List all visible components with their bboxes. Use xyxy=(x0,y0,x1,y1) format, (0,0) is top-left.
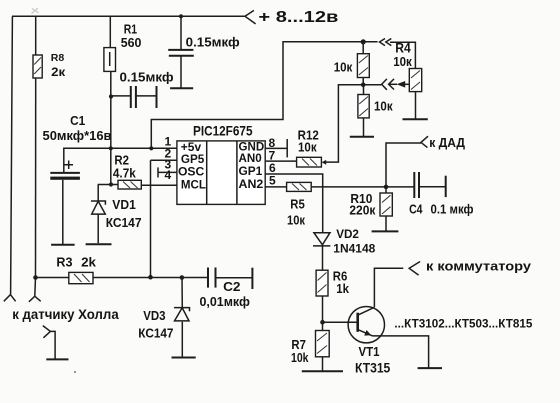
capacitor C4 xyxy=(413,172,415,198)
svg-text:220к: 220к xyxy=(349,204,376,218)
capacitor 0.15uF (right, vertical) xyxy=(180,16,182,50)
capacitor C1 electrolytic xyxy=(50,172,80,174)
resistor R2 xyxy=(118,180,141,189)
svg-text:R8: R8 xyxy=(51,53,65,64)
wire pin8 stub xyxy=(265,147,287,149)
wire R8 top lead xyxy=(35,16,37,55)
svg-text:MCL: MCL xyxy=(181,177,206,191)
node cap2 on R1 lead xyxy=(109,94,113,98)
resistor R6 xyxy=(316,270,328,296)
svg-text:0,01мкф: 0,01мкф xyxy=(200,295,250,309)
wiper arrow R4 xyxy=(389,83,397,85)
resistor 10k lower xyxy=(363,85,365,95)
svg-text:к ДАД: к ДАД xyxy=(429,135,465,150)
svg-text:AN0: AN0 xyxy=(239,151,263,165)
svg-text:4.7k: 4.7k xyxy=(113,167,136,181)
svg-text:КС147: КС147 xyxy=(138,326,173,340)
svg-text:5: 5 xyxy=(269,173,276,187)
IC U1 PIC12F675 box xyxy=(177,141,265,205)
wire top +supply rail xyxy=(12,15,245,17)
node R10 top xyxy=(384,185,389,190)
bar pin3 end xyxy=(157,167,159,177)
svg-text:КТ315: КТ315 xyxy=(355,360,391,375)
wire collector to commutator xyxy=(374,268,403,307)
svg-text:PIC12F675: PIC12F675 xyxy=(193,123,253,139)
node cap1 on rail xyxy=(179,14,183,18)
resistor R1 xyxy=(104,48,116,72)
svg-text:0.1 мкф: 0.1 мкф xyxy=(431,203,474,217)
svg-text:C1: C1 xyxy=(70,113,85,128)
terminal hall ground xyxy=(43,326,55,360)
svg-text:R2: R2 xyxy=(114,154,129,168)
wire R1 top lead xyxy=(109,16,111,47)
wire pin6 GP1 down xyxy=(265,174,323,233)
capacitor 0.15uF (left, horizontal) xyxy=(111,95,131,97)
wire R2 left xyxy=(98,184,118,186)
terminal to commutator xyxy=(409,262,420,276)
wire VD3 top lead xyxy=(181,278,183,309)
transistor VT1 xyxy=(348,307,384,343)
ground R7 xyxy=(302,370,343,372)
wire riser to divider top xyxy=(151,42,377,149)
node VD3 top xyxy=(180,275,185,280)
resistor R5 xyxy=(287,182,312,191)
resistor R10 xyxy=(380,193,392,216)
svg-text:10к: 10к xyxy=(334,59,353,74)
resistor R7 xyxy=(322,322,324,330)
svg-text:VT1: VT1 xyxy=(359,344,380,359)
resistor R8 xyxy=(33,55,42,78)
svg-text:C2: C2 xyxy=(223,280,240,294)
svg-text:VD1: VD1 xyxy=(112,198,136,212)
svg-text:VD3: VD3 xyxy=(143,309,165,323)
wire R8 line to hall terminal xyxy=(34,278,37,297)
resistor R3 xyxy=(69,272,93,283)
node R2 left xyxy=(109,182,113,186)
wire emitter xyxy=(373,336,429,368)
ground VD1 xyxy=(86,243,112,245)
svg-text:...КТ3102...КТ503...КТ815: ...КТ3102...КТ503...КТ815 xyxy=(394,316,532,330)
svg-text:КС147: КС147 xyxy=(106,216,142,230)
ground VD3 xyxy=(172,357,196,359)
connector chevrons top right xyxy=(380,39,392,46)
terminal to hall sensor (left) xyxy=(4,295,16,302)
svg-text:C4: C4 xyxy=(409,203,422,217)
ground R10 xyxy=(372,230,399,232)
svg-text:2k: 2k xyxy=(81,256,96,270)
speck xyxy=(74,371,76,373)
wire base xyxy=(323,321,358,323)
svg-text:AN2: AN2 xyxy=(239,177,264,191)
diode VD2 xyxy=(314,233,330,245)
svg-text:50мкф*16в: 50мкф*16в xyxy=(43,128,112,143)
ground C1 xyxy=(51,244,75,246)
svg-text:R5: R5 xyxy=(290,197,305,211)
wire pin2 stub xyxy=(151,159,177,161)
svg-text:4: 4 xyxy=(165,168,172,182)
svg-text:1N4148: 1N4148 xyxy=(333,241,375,255)
capacitor C2 xyxy=(207,268,209,288)
node divider mid xyxy=(361,83,366,88)
ground hall xyxy=(46,358,68,360)
bar pin8 end xyxy=(286,139,288,157)
wire pin7 stub xyxy=(265,160,296,162)
resistor R12 xyxy=(297,157,322,167)
svg-text:0.15мкф: 0.15мкф xyxy=(120,69,174,84)
svg-text:1k: 1k xyxy=(336,282,349,296)
wire R1 bottom lead xyxy=(110,71,112,148)
svg-text:GP1: GP1 xyxy=(239,164,263,178)
potentiometer R4 body xyxy=(409,69,421,92)
svg-text:2к: 2к xyxy=(51,65,66,79)
svg-text:10k: 10k xyxy=(291,351,309,365)
wire pin5 stub xyxy=(265,186,286,188)
svg-text:560: 560 xyxy=(121,36,142,50)
svg-text:R1: R1 xyxy=(124,23,137,37)
wire +5v node horizontal (C1 to pin1) xyxy=(64,148,177,173)
wiper chevrons R4 xyxy=(363,84,381,86)
zener VD3 xyxy=(174,308,190,312)
svg-text:+ 8...12в: + 8...12в xyxy=(258,9,338,26)
node divider top xyxy=(361,39,366,44)
arrow R12 right xyxy=(322,160,327,165)
wire GP5 vertical xyxy=(150,160,152,277)
wire left vertical xyxy=(11,16,13,295)
ground R4 xyxy=(403,118,428,120)
node GP5 bottom xyxy=(148,275,153,280)
terminal mark top-left (faint) xyxy=(32,8,39,14)
wire bottom horizontal xyxy=(36,277,208,279)
node riser xyxy=(149,146,153,150)
wire DAD riser xyxy=(386,143,421,187)
svg-text:к коммутатору: к коммутатору xyxy=(426,259,532,274)
svg-text:10к: 10к xyxy=(287,213,306,227)
wire R5 right to node xyxy=(311,186,414,188)
node base xyxy=(320,320,325,325)
ground emitter xyxy=(418,367,442,369)
terminal +8...12v xyxy=(245,10,256,24)
wire R12 to divider mid xyxy=(324,85,363,162)
zener VD1 xyxy=(97,185,99,202)
wire R1 line down to R2 node xyxy=(110,148,112,184)
ground divider xyxy=(350,136,374,138)
node +5 rail at R1 line xyxy=(109,146,113,150)
wire R8 bottom lead down to R3 node xyxy=(35,78,37,278)
wire R2 right to pin4 xyxy=(141,184,177,186)
node R3 left xyxy=(33,275,38,280)
svg-text:к датчику Холла: к датчику Холла xyxy=(12,306,119,322)
terminal to DAD xyxy=(421,136,428,147)
wire pin3 stub xyxy=(158,171,177,173)
svg-text:10к: 10к xyxy=(393,54,412,69)
wire R4 bottom xyxy=(415,92,417,120)
svg-text:0.15мкф: 0.15мкф xyxy=(186,34,240,49)
svg-text:R3: R3 xyxy=(56,256,72,270)
resistor 10k upper xyxy=(362,42,364,54)
svg-text:10к: 10к xyxy=(374,99,393,113)
wire R4 top xyxy=(390,42,415,68)
svg-text:10к: 10к xyxy=(298,141,317,155)
svg-text:VD2: VD2 xyxy=(336,227,359,241)
svg-text:R7: R7 xyxy=(291,338,306,352)
terminal to hall sensor (right) xyxy=(29,296,41,302)
